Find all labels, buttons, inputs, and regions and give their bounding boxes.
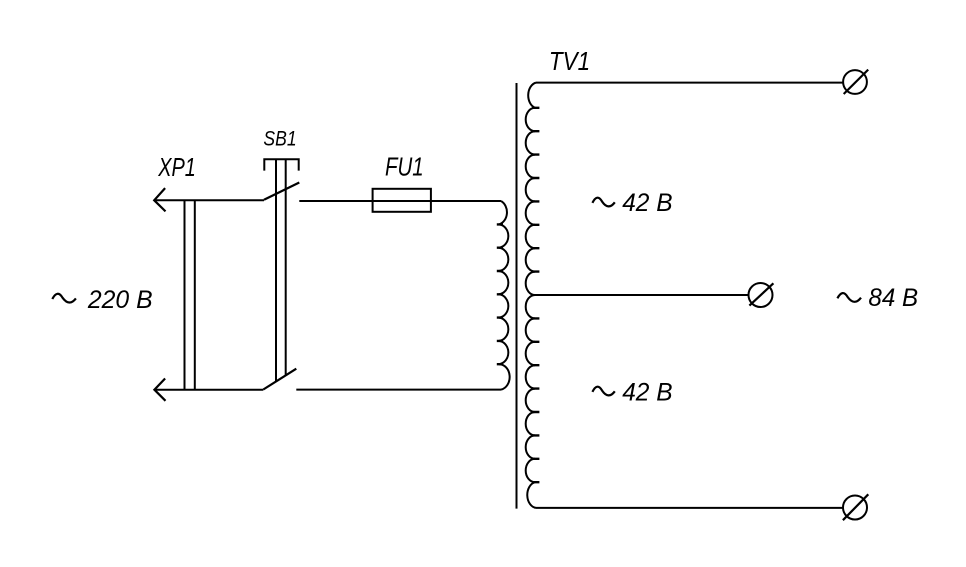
transformer TV1 core — [516, 83, 518, 509]
terminal socket top circle — [843, 70, 867, 94]
wire secondary mid tap to terminal — [534, 294, 749, 296]
transformer TV1 primary winding — [499, 201, 510, 390]
plug XP1 body line 2 — [194, 200, 196, 389]
switch SB1 button bracket — [264, 159, 298, 170]
svg-text:220 В: 220 В — [87, 286, 153, 314]
secondary winding cusp ticks — [532, 108, 539, 482]
label ~42 В bottom tilde — [592, 387, 614, 396]
switch SB1 plunger link 1 — [275, 159, 277, 381]
svg-text:42 В: 42 В — [622, 378, 673, 406]
transformer TV1 secondary winding — [526, 83, 536, 508]
svg-text:TV1: TV1 — [549, 46, 590, 76]
svg-text:SB1: SB1 — [263, 126, 296, 150]
primary winding cusp ticks — [497, 224, 503, 364]
wire bottom left from plug to switch — [154, 389, 263, 391]
svg-text:FU1: FU1 — [385, 152, 424, 182]
terminal socket bottom slash — [843, 494, 868, 520]
wire secondary bottom to terminal — [536, 507, 843, 509]
terminal socket middle circle — [749, 283, 773, 307]
svg-text:42 В: 42 В — [622, 189, 673, 217]
switch SB1 bottom contact blade — [263, 369, 296, 390]
terminal socket top slash — [844, 70, 869, 94]
label ~220 В tilde — [52, 294, 76, 303]
svg-text:84 В: 84 В — [868, 284, 918, 312]
svg-text:XP1: XP1 — [157, 152, 195, 182]
label ~42 В top tilde — [592, 198, 614, 207]
wire secondary top to terminal — [536, 82, 843, 84]
wire top left from plug to switch — [154, 199, 264, 201]
switch SB1 top contact blade — [264, 183, 299, 200]
label ~84 В tilde — [837, 293, 861, 302]
switch SB1 plunger link 2 — [285, 159, 287, 375]
plug XP1 arrow pin 2 — [154, 379, 165, 401]
plug XP1 body line 1 — [184, 200, 186, 389]
plug XP1 arrow pin 1 — [154, 188, 165, 211]
terminal socket middle slash — [749, 283, 773, 305]
terminal socket bottom circle — [843, 496, 867, 520]
wire bottom return from primary to switch — [296, 389, 501, 391]
fuse FU1 body — [373, 189, 431, 212]
wire from switch to fuse and on to transformer primary — [299, 200, 501, 202]
